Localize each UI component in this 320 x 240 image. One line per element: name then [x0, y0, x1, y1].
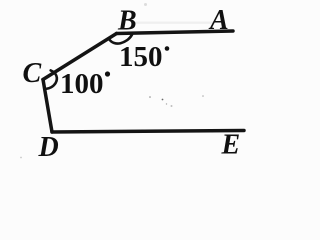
svg-text:B: B: [117, 6, 137, 37]
svg-text:150: 150: [119, 41, 163, 73]
wire C-D: [43, 80, 52, 133]
svg-text:A: A: [208, 5, 229, 36]
svg-text:100: 100: [60, 68, 104, 100]
angle arc at vertex C (100 degrees): [45, 70, 56, 89]
svg-text:C: C: [23, 58, 42, 89]
wire B-C: [43, 34, 117, 80]
svg-text:D: D: [38, 132, 59, 163]
angle arc at vertex B (150 degrees): [109, 35, 132, 44]
wire B-A: [117, 31, 234, 34]
wire D-E: [52, 131, 244, 133]
svg-text:E: E: [221, 130, 241, 161]
degree mark of 150: [165, 46, 170, 51]
degree mark of 100: [105, 71, 110, 76]
